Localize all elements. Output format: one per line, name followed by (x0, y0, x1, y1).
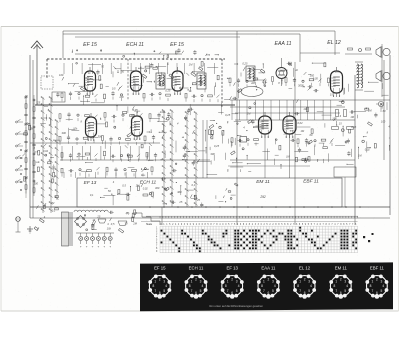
svg-text:0,05: 0,05 (133, 108, 139, 112)
svg-text:8: 8 (153, 284, 155, 288)
svg-text:1: 1 (263, 280, 265, 284)
svg-text:0,5: 0,5 (52, 166, 56, 170)
svg-text:300: 300 (155, 186, 160, 190)
svg-text:7: 7 (154, 289, 156, 293)
svg-text:3: 3 (344, 280, 346, 284)
svg-text:5: 5 (308, 289, 310, 293)
svg-text:100: 100 (59, 73, 64, 77)
svg-text:0,5: 0,5 (34, 150, 38, 154)
svg-text:Von unten auf die Röhrenfassun: Von unten auf die Röhrenfassungen gesehe… (209, 304, 263, 308)
svg-text:100: 100 (335, 69, 340, 73)
svg-text:2: 2 (231, 278, 233, 282)
svg-text:8: 8 (297, 284, 299, 288)
svg-text:8: 8 (189, 284, 191, 288)
svg-text:3: 3 (308, 280, 310, 284)
svg-text:EF 13: EF 13 (84, 180, 97, 186)
svg-text:5: 5 (272, 289, 274, 293)
svg-text:7: 7 (191, 289, 193, 293)
svg-text:+: + (92, 245, 94, 249)
svg-text:0,02: 0,02 (298, 121, 304, 125)
svg-text:0,25: 0,25 (351, 125, 357, 129)
svg-text:ECH 11: ECH 11 (126, 42, 144, 48)
svg-text:0,1: 0,1 (192, 183, 196, 187)
svg-text:0,02: 0,02 (43, 149, 49, 153)
svg-text:292: 292 (259, 195, 266, 199)
svg-text:2: 2 (304, 278, 306, 282)
svg-text:2: 2 (195, 278, 197, 282)
svg-text:100: 100 (381, 120, 386, 124)
svg-text:+: + (86, 245, 88, 249)
svg-text:EL 12: EL 12 (327, 40, 341, 46)
svg-text:7: 7 (227, 289, 229, 293)
svg-text:2: 2 (340, 278, 342, 282)
svg-text:1: 1 (335, 280, 337, 284)
svg-text:Skala: Skala (146, 223, 153, 226)
svg-text:10k: 10k (107, 226, 112, 230)
svg-text:EF 15: EF 15 (154, 265, 166, 270)
svg-text:EBF 11: EBF 11 (370, 265, 385, 270)
svg-text:1: 1 (154, 280, 156, 284)
svg-text:0,5: 0,5 (111, 222, 115, 226)
svg-text:0,25: 0,25 (214, 144, 220, 148)
svg-text:25: 25 (196, 198, 200, 202)
svg-text:4: 4 (165, 284, 167, 288)
svg-text:8: 8 (261, 284, 263, 288)
svg-text:5: 5 (344, 289, 346, 293)
svg-text:1: 1 (299, 280, 301, 284)
svg-text:EM 11: EM 11 (256, 179, 270, 185)
svg-text:1: 1 (372, 280, 374, 284)
svg-text:8: 8 (370, 284, 372, 288)
svg-text:0,25: 0,25 (165, 88, 171, 92)
svg-text:+: + (103, 245, 105, 249)
svg-text:25: 25 (178, 200, 182, 204)
svg-text:300: 300 (34, 181, 39, 185)
svg-text:3: 3 (236, 280, 238, 284)
svg-text:EF 15: EF 15 (170, 42, 184, 48)
svg-text:EF 13: EF 13 (226, 265, 238, 270)
svg-text:EL 12: EL 12 (299, 265, 311, 270)
svg-text:5: 5 (381, 289, 383, 293)
svg-text:2: 2 (159, 278, 161, 282)
svg-text:+: + (109, 245, 111, 249)
svg-text:0,05: 0,05 (313, 77, 319, 81)
svg-text:4: 4 (274, 284, 276, 288)
svg-text:300: 300 (62, 131, 67, 135)
svg-text:0,5: 0,5 (112, 86, 116, 90)
svg-text:+: + (98, 245, 100, 249)
svg-text:0,02: 0,02 (143, 186, 149, 190)
svg-text:0,02: 0,02 (365, 147, 371, 151)
svg-text:4: 4 (238, 284, 240, 288)
svg-text:100: 100 (160, 110, 165, 114)
svg-text:3: 3 (272, 280, 274, 284)
svg-text:ECH 11: ECH 11 (189, 265, 204, 270)
svg-text:2: 2 (376, 278, 378, 282)
svg-text:EF 15: EF 15 (83, 42, 97, 48)
svg-text:7: 7 (299, 289, 301, 293)
svg-text:EAA 11: EAA 11 (274, 41, 291, 47)
svg-text:EM 11: EM 11 (335, 265, 348, 270)
svg-text:300: 300 (298, 84, 303, 88)
svg-text:3: 3 (200, 280, 202, 284)
svg-text:25: 25 (36, 101, 40, 105)
svg-text:100: 100 (119, 95, 124, 99)
svg-text:+: + (80, 245, 82, 249)
svg-text:2: 2 (268, 278, 270, 282)
svg-text:1: 1 (227, 280, 229, 284)
svg-text:7: 7 (372, 289, 374, 293)
svg-text:4: 4 (346, 284, 348, 288)
svg-text:100: 100 (332, 117, 337, 121)
svg-text:10k: 10k (73, 126, 78, 130)
svg-text:10k: 10k (131, 113, 136, 117)
svg-text:300: 300 (98, 135, 103, 139)
svg-text:3: 3 (381, 280, 383, 284)
svg-text:25: 25 (96, 215, 100, 219)
svg-text:8: 8 (334, 284, 336, 288)
svg-text:3: 3 (163, 280, 165, 284)
svg-text:5: 5 (236, 289, 238, 293)
svg-text:25: 25 (125, 211, 129, 215)
svg-text:0,1: 0,1 (52, 208, 56, 212)
svg-text:4: 4 (382, 284, 384, 288)
svg-text:0,25: 0,25 (242, 61, 248, 65)
svg-text:0,25: 0,25 (225, 113, 231, 117)
svg-text:7: 7 (335, 289, 337, 293)
svg-text:5: 5 (163, 289, 165, 293)
svg-text:1: 1 (191, 280, 193, 284)
svg-text:EBF 11: EBF 11 (303, 179, 319, 185)
svg-text:EAA 11: EAA 11 (261, 265, 276, 270)
svg-text:8: 8 (225, 284, 227, 288)
svg-text:4: 4 (310, 284, 312, 288)
svg-text:4: 4 (202, 284, 204, 288)
svg-text:300: 300 (210, 152, 215, 156)
svg-text:5: 5 (200, 289, 202, 293)
svg-text:0,5: 0,5 (122, 183, 126, 187)
svg-text:0,1: 0,1 (90, 193, 94, 197)
svg-text:7: 7 (263, 289, 265, 293)
svg-text:300: 300 (177, 190, 182, 194)
svg-text:10k: 10k (303, 107, 308, 111)
